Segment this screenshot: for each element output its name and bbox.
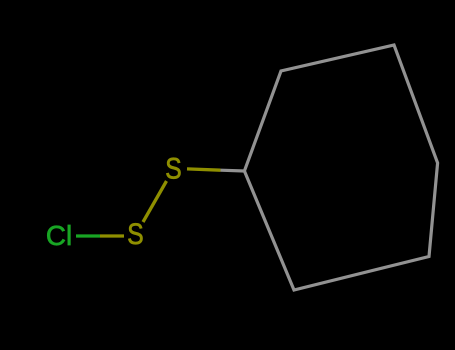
svg-text:S: S <box>165 152 181 185</box>
bond S2-C1 sulfur half (olive) <box>187 169 221 170</box>
svg-text:Cl: Cl <box>46 220 72 251</box>
bond Cl-S1 sulfur half (olive) <box>100 234 124 237</box>
bond Cl-S1 chlorine half (green) <box>76 234 100 237</box>
bond S2-C1 carbon half (gray) <box>221 169 245 173</box>
svg-text:S: S <box>127 218 143 251</box>
bond S1-S2 (olive) <box>143 181 167 222</box>
ring C1-C6 hexagon <box>244 45 437 290</box>
